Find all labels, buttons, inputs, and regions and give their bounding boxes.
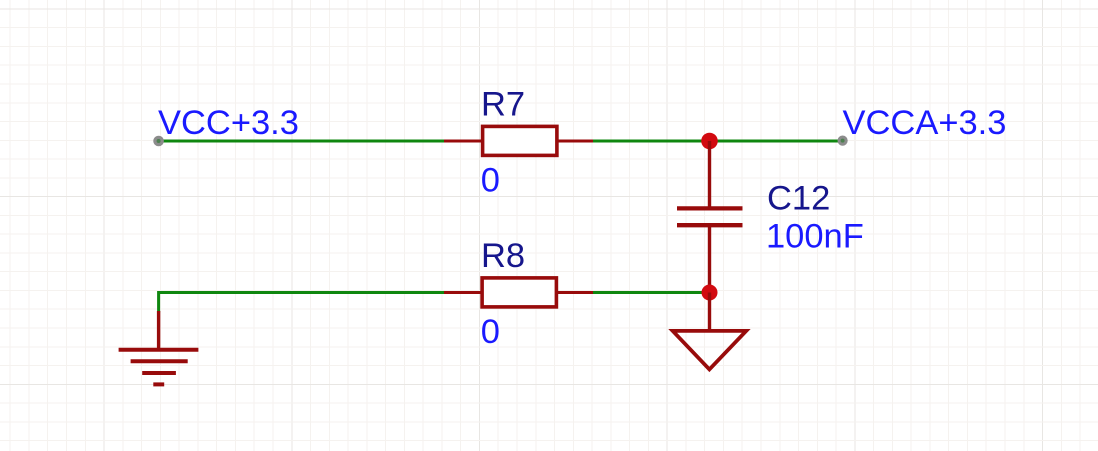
label R8 <box>481 237 525 275</box>
value 0 (R8) <box>481 313 500 351</box>
resistor R8 <box>444 278 594 307</box>
value 0 (R7) <box>481 162 500 200</box>
value 100nF <box>766 217 864 255</box>
capacitor C12 <box>677 141 743 293</box>
wire <box>159 293 445 313</box>
svg-text:0: 0 <box>481 313 500 351</box>
svg-text:C12: C12 <box>767 179 830 217</box>
svg-text:0: 0 <box>481 162 500 200</box>
ground (triangle) <box>673 293 747 370</box>
junction <box>702 285 718 301</box>
svg-text:R7: R7 <box>481 85 525 123</box>
svg-text:100nF: 100nF <box>766 217 864 255</box>
svg-text:VCCA+3.3: VCCA+3.3 <box>843 104 1007 142</box>
label R7 <box>481 85 525 123</box>
wire <box>159 140 445 143</box>
junction <box>701 133 718 150</box>
svg-text:VCC+3.3: VCC+3.3 <box>158 104 299 142</box>
net label VCCA+3.3 <box>843 104 1007 142</box>
net label VCC+3.3 <box>158 104 299 142</box>
wire <box>593 140 838 143</box>
resistor R7 <box>444 126 594 155</box>
wire <box>593 291 710 294</box>
node VCC+3.3 endpoint <box>153 136 164 147</box>
svg-text:R8: R8 <box>481 237 525 275</box>
label C12 <box>767 179 830 217</box>
node VCCA+3.3 endpoint <box>838 136 848 146</box>
ground (earth) left <box>119 311 199 384</box>
